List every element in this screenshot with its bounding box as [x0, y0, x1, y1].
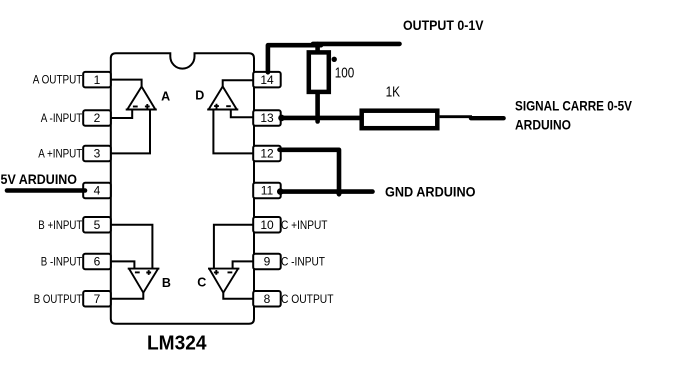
svg-text:100: 100	[335, 64, 355, 81]
svg-text:A -INPUT: A -INPUT	[41, 111, 83, 125]
svg-text:14: 14	[260, 73, 274, 87]
svg-text:ARDUINO: ARDUINO	[515, 117, 571, 133]
svg-text:8: 8	[264, 292, 271, 306]
svg-text:B -INPUT: B -INPUT	[41, 254, 83, 268]
svg-text:A OUTPUT: A OUTPUT	[33, 72, 83, 86]
svg-text:13: 13	[260, 111, 274, 125]
svg-text:A: A	[161, 89, 170, 103]
svg-text:7: 7	[94, 292, 101, 306]
svg-text:3: 3	[94, 147, 101, 161]
svg-text:C -INPUT: C -INPUT	[281, 254, 326, 268]
svg-text:OUTPUT 0-1V: OUTPUT 0-1V	[403, 17, 484, 33]
svg-text:1: 1	[94, 73, 101, 87]
svg-text:11: 11	[261, 184, 274, 198]
svg-text:LM324: LM324	[147, 333, 207, 355]
svg-text:A +INPUT: A +INPUT	[38, 146, 83, 160]
svg-text:SIGNAL CARRE 0-5V: SIGNAL CARRE 0-5V	[515, 98, 633, 114]
svg-text:4: 4	[94, 184, 101, 198]
svg-text:B OUTPUT: B OUTPUT	[34, 292, 83, 306]
svg-text:2: 2	[94, 111, 101, 125]
svg-text:10: 10	[260, 218, 274, 232]
svg-text:B: B	[162, 276, 171, 290]
svg-text:GND ARDUINO: GND ARDUINO	[385, 184, 476, 200]
svg-text:C +INPUT: C +INPUT	[281, 218, 328, 232]
svg-text:6: 6	[94, 255, 101, 269]
svg-text:D: D	[195, 88, 204, 102]
svg-text:9: 9	[264, 255, 271, 269]
svg-text:5: 5	[94, 218, 101, 232]
svg-text:B +INPUT: B +INPUT	[38, 218, 83, 232]
svg-text:12: 12	[260, 147, 274, 161]
svg-text:C OUTPUT: C OUTPUT	[281, 292, 334, 306]
svg-text:1K: 1K	[386, 84, 401, 101]
svg-text:5V ARDUINO: 5V ARDUINO	[1, 171, 78, 187]
svg-text:C: C	[197, 276, 206, 290]
